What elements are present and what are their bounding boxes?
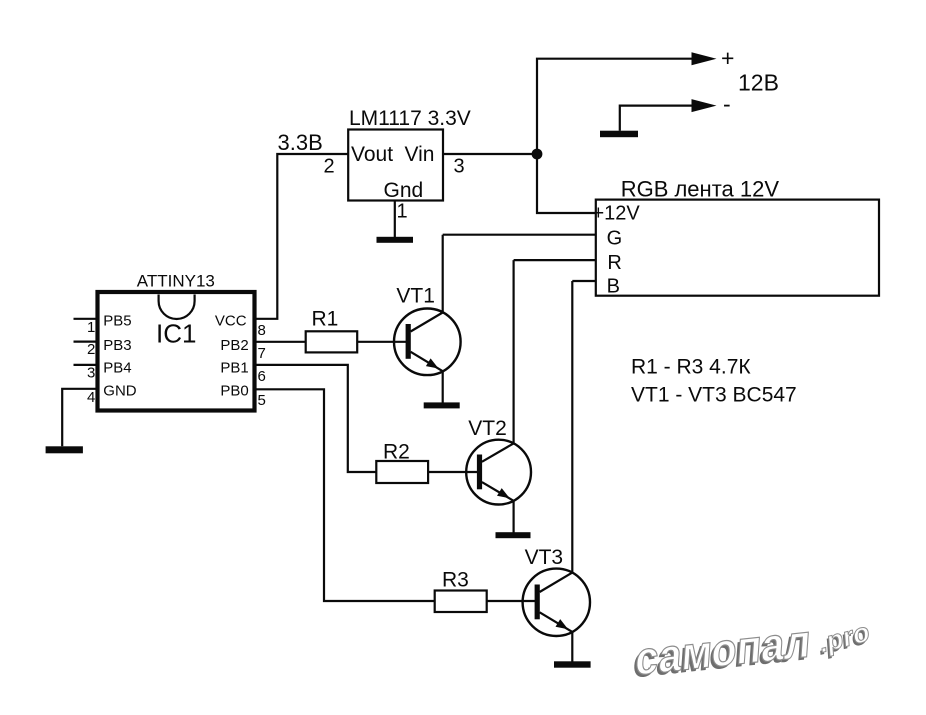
regulator U1 LM1117 box [348, 130, 443, 201]
pin 3 stub PB4 [74, 364, 98, 366]
svg-text:6: 6 [258, 368, 266, 385]
ground (VT3) [554, 661, 591, 667]
wire VT3 emitter to ground [571, 632, 573, 662]
svg-text:PB3: PB3 [103, 337, 131, 354]
svg-text:5: 5 [258, 392, 266, 409]
wire VT2 collector riser [512, 260, 514, 443]
svg-text:+12V: +12V [593, 202, 641, 224]
svg-text:PB0: PB0 [220, 382, 248, 399]
transistor VT3 [523, 569, 590, 636]
svg-text:VT1: VT1 [396, 285, 435, 308]
svg-text:12B: 12B [738, 70, 779, 96]
svg-text:GND: GND [103, 382, 137, 399]
wire 12V plus feed (junction up and right to arrow) [537, 59, 694, 154]
wire PB0 pin 5 to R3 [255, 389, 435, 601]
wire R2 to VT2 base [428, 471, 477, 473]
arrowhead minus terminal [692, 99, 717, 112]
svg-text:Vin: Vin [405, 143, 435, 166]
watermark .pro [811, 615, 876, 661]
wire R net to connector [514, 259, 596, 261]
svg-text:+: + [721, 45, 734, 71]
svg-text:2: 2 [87, 341, 95, 358]
ground (regulator) [377, 237, 414, 243]
resistor R2 [376, 461, 428, 483]
wire Vin to junction [443, 153, 537, 155]
svg-text:Gnd: Gnd [384, 179, 424, 202]
svg-text:3.3B: 3.3B [278, 130, 323, 155]
connector RGB strip box [596, 200, 879, 296]
resistor R1 [306, 331, 358, 352]
svg-text:VT1 - VT3 BC547: VT1 - VT3 BC547 [631, 384, 797, 407]
wire PB2 pin 7 to R1 [255, 341, 306, 343]
ground (IC1) [46, 446, 83, 453]
ground (VT1) [424, 402, 460, 408]
wire VT2 emitter to ground [512, 501, 514, 533]
svg-text:2: 2 [324, 156, 335, 178]
wire 12V minus lead [620, 106, 694, 131]
IC1 notch [159, 295, 195, 320]
wire 3.3V net (Vout to VCC pin 8) [255, 154, 349, 319]
svg-text:-: - [723, 91, 731, 117]
wire B net to connector [572, 280, 596, 282]
svg-text:VT2: VT2 [468, 417, 507, 440]
node junction 12V [532, 149, 543, 160]
svg-text:LM1117 3.3V: LM1117 3.3V [349, 107, 471, 130]
svg-text:VT3: VT3 [525, 546, 564, 569]
svg-text:RGB лента 12V: RGB лента 12V [621, 177, 780, 202]
svg-text:R3: R3 [442, 568, 469, 591]
transistor VT1 [394, 309, 461, 376]
svg-text:7: 7 [258, 345, 266, 362]
svg-text:R2: R2 [383, 440, 410, 463]
ground (VT2) [496, 532, 531, 538]
wire GND pin 4 to ground [62, 389, 97, 447]
svg-text:VCC: VCC [215, 312, 247, 329]
ground (12V minus) [600, 131, 638, 138]
svg-text:ATTINY13: ATTINY13 [137, 271, 215, 290]
svg-text:3: 3 [454, 156, 465, 178]
svg-text:PB5: PB5 [103, 312, 131, 329]
svg-text:4: 4 [87, 389, 95, 406]
wire PB1 pin 6 to R2 [255, 365, 377, 472]
svg-text:Vout: Vout [351, 143, 393, 166]
IC1 ATTINY13 box [98, 292, 255, 411]
svg-text:PB4: PB4 [103, 360, 131, 377]
svg-text:IC1: IC1 [156, 319, 196, 349]
svg-text:G: G [607, 227, 623, 249]
watermark самопал [625, 614, 818, 687]
wire VT3 collector riser [571, 281, 573, 573]
svg-text:B: B [607, 276, 620, 298]
arrowhead plus terminal [692, 52, 717, 65]
svg-text:1: 1 [397, 201, 408, 223]
resistor R3 [435, 591, 487, 613]
svg-text:8: 8 [258, 322, 266, 339]
wire R1 to VT1 base [357, 341, 406, 343]
wire junction down to +12V pin of connector [537, 154, 596, 213]
wire G net to connector [443, 234, 596, 236]
wire R3 to VT3 base [487, 600, 535, 602]
svg-text:1: 1 [87, 319, 95, 336]
svg-text:R1: R1 [312, 308, 339, 331]
pin 1 stub PB5 [74, 318, 98, 320]
wire regulator Gnd pin [394, 201, 396, 238]
svg-text:3: 3 [87, 365, 95, 382]
svg-text:PB2: PB2 [220, 337, 248, 354]
pin 2 stub PB3 [74, 341, 98, 343]
wire VT1 emitter to ground [442, 371, 444, 403]
svg-text:R1 - R3 4.7К: R1 - R3 4.7К [631, 356, 751, 379]
transistor VT2 [466, 440, 531, 505]
svg-text:PB1: PB1 [220, 360, 248, 377]
svg-text:R: R [607, 252, 621, 274]
wire VT1 collector riser [442, 235, 444, 313]
